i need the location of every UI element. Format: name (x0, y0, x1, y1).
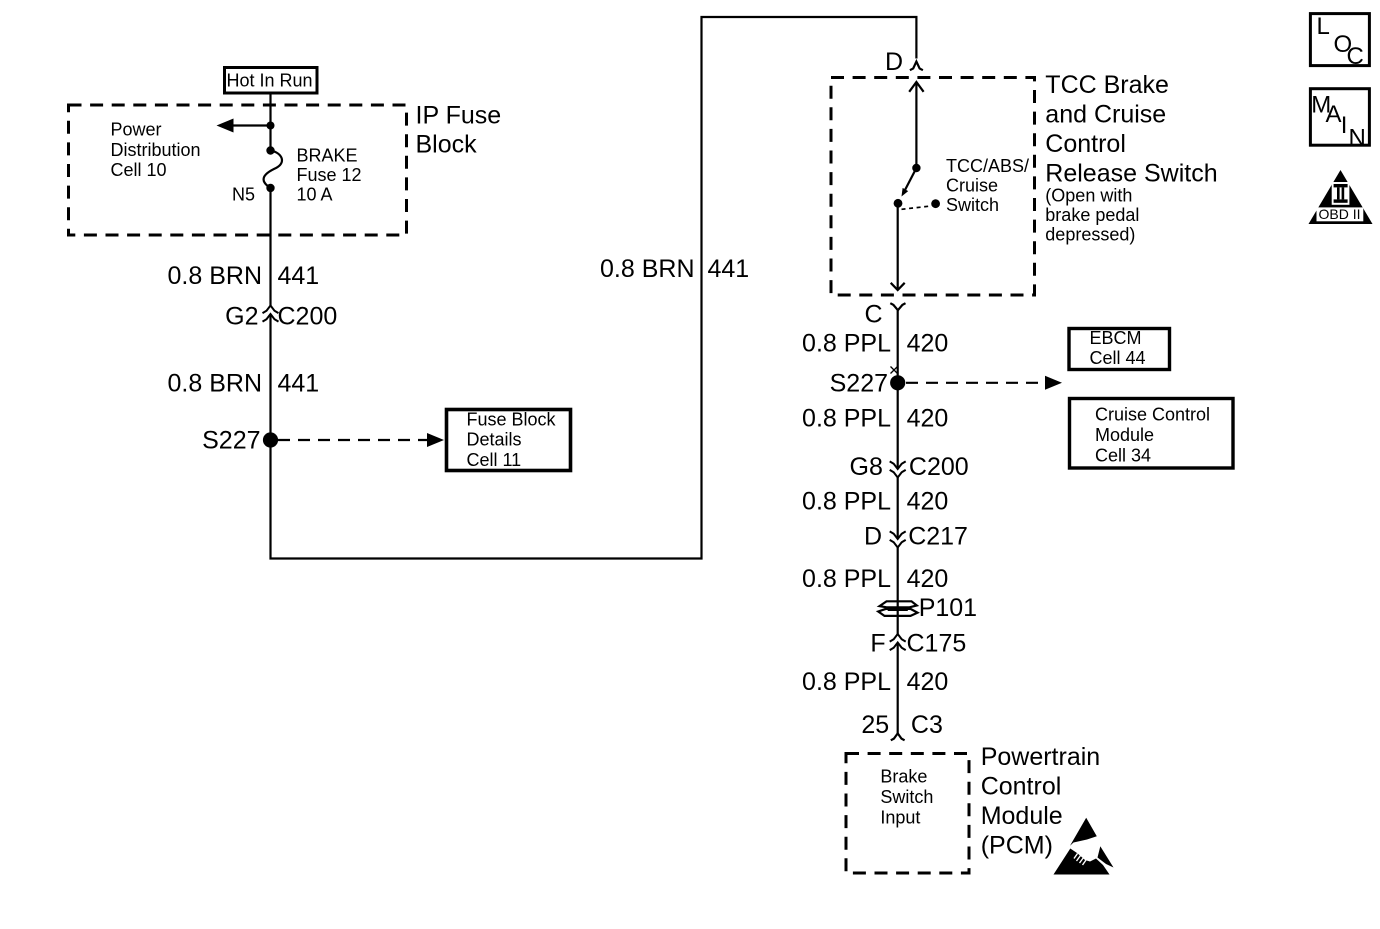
svg-text:(PCM): (PCM) (981, 832, 1053, 860)
svg-text:Cruise: Cruise (946, 176, 998, 196)
svg-text:Distribution: Distribution (111, 140, 201, 160)
label BRAKE Fuse 12 10 A (297, 146, 362, 205)
svg-text:C200: C200 (278, 303, 338, 331)
svg-text:441: 441 (278, 262, 320, 290)
svg-text:420: 420 (907, 668, 949, 696)
svg-text:420: 420 (907, 565, 949, 593)
svg-text:Input: Input (880, 808, 920, 828)
svg-text:420: 420 (907, 487, 949, 515)
splice S227 (left) (202, 427, 278, 455)
IP Fuse Block dashed outline (69, 105, 407, 235)
svg-text:Fuse 12: Fuse 12 (297, 165, 362, 185)
fuse BRAKE Fuse 12 10A (264, 146, 282, 192)
svg-text:Powertrain: Powertrain (981, 743, 1100, 771)
switch pivot node (912, 164, 920, 172)
svg-text:441: 441 (708, 255, 750, 283)
svg-text:441: 441 (278, 370, 320, 398)
junction node at fuse feed (267, 122, 275, 130)
svg-text:OBD II: OBD II (1319, 206, 1361, 222)
connector pin D at TCC box (female chevron) (885, 48, 923, 76)
svg-text:Hot In Run: Hot In Run (227, 71, 313, 91)
svg-text:brake pedal: brake pedal (1045, 205, 1139, 225)
label Brake Switch Input (880, 766, 933, 827)
svg-text:TCC/ABS/: TCC/ABS/ (946, 156, 1029, 176)
label TCC/ABS/ Cruise Switch (946, 156, 1029, 215)
dashed reference arrow to Fuse Block Details (278, 433, 444, 447)
connector C200 pin G8 (in-line, arrows down) (850, 453, 969, 481)
svg-text:TCC Brake: TCC Brake (1045, 71, 1169, 99)
switch actuator node (931, 199, 940, 208)
label 0.8 BRN 441 (lower) (168, 370, 320, 398)
label IP Fuse Block (416, 102, 502, 159)
svg-text:Cell 44: Cell 44 (1090, 348, 1146, 368)
svg-text:C217: C217 (908, 523, 968, 551)
svg-text:S227: S227 (202, 427, 260, 455)
svg-text:10 A: 10 A (297, 185, 333, 205)
connector C217 pin D (in-line, arrows down) (864, 523, 968, 551)
svg-text:Module: Module (1095, 425, 1154, 445)
label 0.8 BRN 441 (vertical run) (600, 255, 749, 283)
svg-text:depressed): depressed) (1045, 225, 1135, 245)
svg-text:Power: Power (111, 120, 162, 140)
svg-text:Fuse Block: Fuse Block (467, 410, 557, 430)
svg-text:Block: Block (416, 131, 478, 159)
callout box EBCM Cell 44 (1069, 328, 1170, 370)
connector C175 pin F (in-line, arrows up) (870, 629, 966, 657)
svg-text:Control: Control (1045, 130, 1126, 158)
svg-text:P101: P101 (919, 594, 977, 622)
svg-text:Details: Details (467, 430, 522, 450)
svg-text:Cell 11: Cell 11 (467, 450, 522, 470)
label 0.8 PPL 420 (row 4) (802, 565, 948, 593)
svg-text:0.8 BRN: 0.8 BRN (168, 370, 262, 398)
svg-text:D: D (885, 48, 903, 76)
svg-text:Switch: Switch (880, 787, 933, 807)
wire: S227 routed to TCC switch (down, right, up, right, down) (271, 17, 917, 559)
svg-text:Switch: Switch (946, 195, 999, 215)
svg-text:G2: G2 (225, 303, 258, 331)
svg-text:BRAKE: BRAKE (297, 146, 358, 166)
callout box Cruise Control Module Cell 34 (1070, 399, 1234, 469)
svg-text:I: I (1341, 112, 1348, 139)
svg-text:F: F (870, 629, 885, 657)
svg-text:C3: C3 (911, 711, 943, 739)
wire: connector C175 F to PCM pin 25 (897, 643, 899, 734)
switch actuator dashed link (902, 206, 932, 209)
label 0.8 PPL 420 (row 5) (802, 668, 948, 696)
svg-text:Cell 34: Cell 34 (1095, 446, 1151, 466)
wire: Hot In Run down to fuse (269, 93, 271, 150)
svg-text:0.8 BRN: 0.8 BRN (168, 262, 262, 290)
svg-text:0.8 BRN: 0.8 BRN (600, 255, 694, 283)
svg-text:(Open with: (Open with (1045, 186, 1132, 206)
label Power Distribution Cell 10 (111, 120, 201, 181)
svg-text:G8: G8 (850, 453, 883, 481)
svg-text:Module: Module (981, 802, 1063, 830)
svg-text:D: D (864, 523, 882, 551)
wire: tap to Power Distribution with arrow (217, 119, 271, 133)
switch wire from D (male arrow up) (909, 82, 923, 168)
dashed reference arrow to EBCM (906, 376, 1062, 390)
label TCC Brake and Cruise Control Release Switch (1045, 71, 1217, 244)
wire: connector C200 G8 to connector C217 D (897, 478, 899, 540)
wire: pin C to connector C200 G8 (897, 311, 899, 470)
svg-text:Cell 10: Cell 10 (111, 160, 167, 180)
grommet P101 (878, 594, 977, 622)
MAIN marker (1310, 89, 1369, 152)
svg-text:0.8 PPL: 0.8 PPL (802, 487, 891, 515)
svg-text:0.8 PPL: 0.8 PPL (802, 330, 891, 358)
svg-text:0.8 PPL: 0.8 PPL (802, 668, 891, 696)
ESD sensitive device symbol (1054, 818, 1114, 875)
PCM dashed outline (846, 754, 969, 874)
svg-text:A: A (1326, 101, 1342, 128)
svg-text:Brake: Brake (880, 766, 927, 786)
svg-text:0.8 PPL: 0.8 PPL (802, 565, 891, 593)
svg-text:Cruise Control: Cruise Control (1095, 405, 1210, 425)
svg-text:C200: C200 (909, 453, 969, 481)
svg-text:C175: C175 (907, 629, 967, 657)
label 0.8 PPL 420 (row 2) (802, 405, 948, 433)
stray x mark above splice (891, 367, 898, 374)
svg-text:N5: N5 (232, 185, 255, 205)
switch contact node (894, 199, 903, 208)
wire: fuse to connector C200 G2 (269, 188, 271, 306)
label 0.8 PPL 420 (row 1) (802, 330, 948, 358)
wire: connector C217 D to connector C175 F (through P101) (897, 548, 899, 635)
svg-text:L: L (1317, 13, 1330, 40)
TCC box dashed outline (831, 78, 1035, 296)
label 0.8 BRN 441 (upper) (168, 262, 320, 290)
svg-text:EBCM: EBCM (1090, 328, 1142, 348)
label Powertrain Control Module (PCM) (981, 743, 1100, 860)
connector pin C at TCC box (female Y) (865, 301, 906, 329)
svg-text:Control: Control (981, 773, 1062, 801)
OBD II marker (1309, 170, 1373, 224)
callout box Fuse Block Details Cell 11 (447, 410, 571, 471)
svg-text:C: C (865, 301, 883, 329)
switch wire to pin C (arrow down) (891, 204, 905, 291)
label 0.8 PPL 420 (row 3) (802, 487, 948, 515)
splice S227 (right) (830, 370, 906, 398)
LOC marker (1310, 13, 1369, 70)
svg-text:420: 420 (907, 405, 949, 433)
svg-text:and Cruise: and Cruise (1045, 101, 1166, 129)
switch blade (arrow) (902, 168, 917, 197)
svg-text:S227: S227 (830, 370, 888, 398)
svg-text:0.8 PPL: 0.8 PPL (802, 405, 891, 433)
wire: connector C200 G2 to splice S227 (269, 314, 271, 440)
svg-text:25: 25 (861, 711, 889, 739)
connector C3 pin 25 (female fork at PCM) (861, 711, 942, 740)
svg-text:C: C (1347, 43, 1364, 70)
svg-text:IP Fuse: IP Fuse (416, 102, 502, 130)
label "Hot In Run" (225, 68, 318, 94)
svg-text:N: N (1349, 124, 1366, 151)
svg-text:Release Switch: Release Switch (1045, 160, 1217, 188)
svg-text:420: 420 (907, 330, 949, 358)
connector C200 pin G2 (in-line, arrows up) (225, 303, 337, 331)
